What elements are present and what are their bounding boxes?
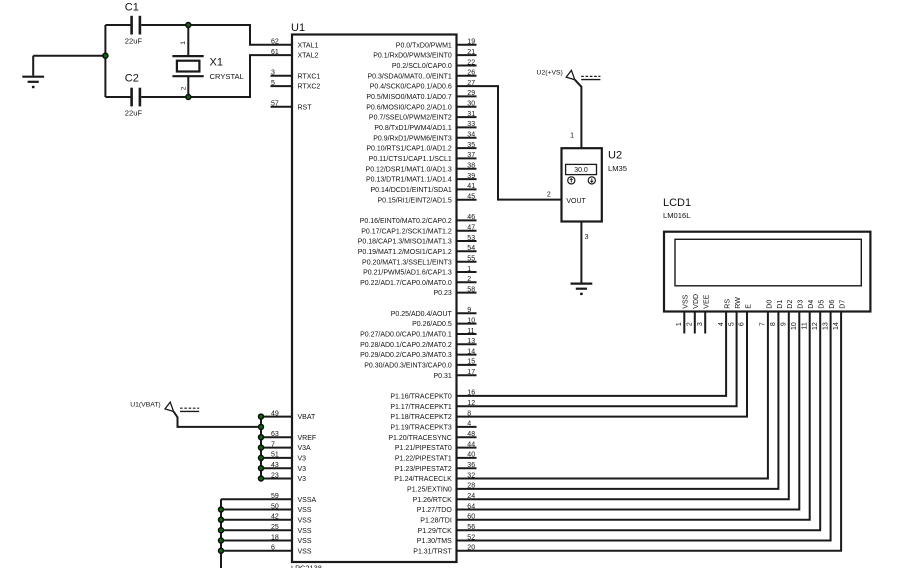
svg-text:P1.25/EXTIN0: P1.25/EXTIN0 <box>407 487 452 494</box>
U1 right pin 48 P1.20/TRACESYNC <box>457 436 477 438</box>
svg-text:44: 44 <box>467 441 475 448</box>
svg-text:VREF: VREF <box>298 435 317 442</box>
U1 left pin 50 VSS <box>221 509 292 511</box>
junction: power bus row 42 <box>259 466 264 471</box>
svg-text:RTXC2: RTXC2 <box>298 84 321 91</box>
U1 right pin 9 P0.25/AD0.4/AOUT <box>457 312 477 314</box>
U1 right pin 26 P0.3/SDA0/MAT0..0/EINT1 <box>457 75 477 77</box>
svg-text:48: 48 <box>467 431 475 438</box>
U1 right pin 22 P0.2/SCL0/CAP0.0 <box>457 65 477 67</box>
svg-text:P1.16/TRACEPKT0: P1.16/TRACEPKT0 <box>390 394 452 401</box>
svg-text:22uF: 22uF <box>125 109 143 118</box>
svg-text:P0.22/AD1.7/CAP0.0/MAT0.0: P0.22/AD1.7/CAP0.0/MAT0.0 <box>360 280 452 287</box>
svg-text:V3: V3 <box>298 456 307 463</box>
svg-text:LPC2138: LPC2138 <box>291 563 322 568</box>
svg-text:39: 39 <box>467 173 475 180</box>
svg-text:22: 22 <box>467 59 475 66</box>
svg-text:LM35: LM35 <box>608 164 627 173</box>
svg-text:P0.18/CAP1.3/MISO1/MAT1.3: P0.18/CAP1.3/MISO1/MAT1.3 <box>358 239 452 246</box>
svg-text:2: 2 <box>467 276 471 283</box>
svg-text:U1: U1 <box>291 22 305 34</box>
svg-text:P0.28/AD0.1/CAP0.2/MAT0.2: P0.28/AD0.1/CAP0.2/MAT0.2 <box>360 342 452 349</box>
U2 display 30.0 <box>566 164 597 174</box>
svg-text:P0.10/RTS1/CAP1.0/AD1.2: P0.10/RTS1/CAP1.0/AD1.2 <box>366 146 452 153</box>
svg-text:9: 9 <box>467 307 471 314</box>
svg-text:63: 63 <box>271 431 279 438</box>
svg-text:2: 2 <box>687 322 694 326</box>
svg-text:4: 4 <box>467 421 471 428</box>
U2 down button <box>588 177 595 184</box>
U1 left pin 18 VSS <box>221 540 292 542</box>
svg-text:E: E <box>745 304 752 309</box>
svg-text:13: 13 <box>822 322 829 330</box>
svg-text:P0.27/AD0.0/CAP0.1/MAT0.1: P0.27/AD0.0/CAP0.1/MAT0.1 <box>360 332 452 339</box>
U1 right pin 39 P0.13/DTR1/MAT1.1/AD1.4 <box>457 178 477 180</box>
svg-text:P1.20/TRACESYNC: P1.20/TRACESYNC <box>388 435 451 442</box>
svg-text:30: 30 <box>467 101 475 108</box>
svg-text:3: 3 <box>585 234 589 241</box>
svg-text:45: 45 <box>467 194 475 201</box>
svg-text:P0.5/MISO0/MAT0.1/AD0.7: P0.5/MISO0/MAT0.1/AD0.7 <box>366 94 452 101</box>
svg-text:25: 25 <box>271 524 279 531</box>
wire: D6 net - U1 row 49 to LCD1 <box>457 312 831 541</box>
svg-text:23: 23 <box>271 472 279 479</box>
LCD1 pin 3 VEE stub <box>704 312 706 334</box>
U1 left pin 43 V3 <box>261 467 292 469</box>
U1 left pin 49 VBAT <box>261 416 292 418</box>
U1 right pin 4 P1.19/TRACEPKT3 <box>457 426 477 428</box>
svg-text:35: 35 <box>467 142 475 149</box>
ground (U2) <box>571 283 593 285</box>
svg-text:LM016L: LM016L <box>663 211 690 220</box>
wire: C1 left plate to left rail <box>105 24 131 26</box>
svg-text:P0.17/CAP1.2/SCK1/MAT1.2: P0.17/CAP1.2/SCK1/MAT1.2 <box>361 228 452 235</box>
svg-text:40: 40 <box>467 452 475 459</box>
svg-text:D6: D6 <box>829 300 836 309</box>
svg-text:P0.9/RxD1/PWM6/EINT3: P0.9/RxD1/PWM6/EINT3 <box>373 135 452 142</box>
display LCD1 LM016L body <box>664 232 870 312</box>
wire: VBAT/VREF/V3 power bus <box>260 417 262 479</box>
U1 right pin 13 P0.28/AD0.1/CAP0.2/MAT0.2 <box>457 343 477 345</box>
U1 right pin 34 P0.9/RxD1/PWM6/EINT3 <box>457 137 477 139</box>
junction: power bus row 41 <box>259 455 264 460</box>
svg-text:P0.19/MAT1.2/MOSI1/CAP1.2: P0.19/MAT1.2/MOSI1/CAP1.2 <box>358 249 452 256</box>
svg-text:57: 57 <box>271 101 279 108</box>
svg-text:59: 59 <box>271 493 279 500</box>
svg-text:V3: V3 <box>298 476 307 483</box>
svg-text:P0.7/SSEL0/PWM2/EINT2: P0.7/SSEL0/PWM2/EINT2 <box>369 115 452 122</box>
svg-text:P0.6/MOSI0/CAP0.2/AD1.0: P0.6/MOSI0/CAP0.2/AD1.0 <box>366 104 452 111</box>
svg-text:9: 9 <box>781 322 788 326</box>
svg-text:P0.8/TxD1/PWM4/AD1.1: P0.8/TxD1/PWM4/AD1.1 <box>374 125 452 132</box>
svg-text:P1.22/PIPESTAT1: P1.22/PIPESTAT1 <box>395 456 452 463</box>
ground (left) <box>22 76 44 78</box>
svg-text:RTXC1: RTXC1 <box>298 73 321 80</box>
svg-text:P1.18/TRACEPKT2: P1.18/TRACEPKT2 <box>390 414 452 421</box>
U1 left pin 51 V3 <box>261 457 292 459</box>
svg-text:14: 14 <box>833 322 840 330</box>
svg-text:51: 51 <box>271 452 279 459</box>
junction: XTAL1 / crystal <box>186 23 191 28</box>
svg-text:VSS: VSS <box>298 517 312 524</box>
svg-text:P0.29/AD0.2/CAP0.3/MAT0.3: P0.29/AD0.2/CAP0.3/MAT0.3 <box>360 352 452 359</box>
U1 right pin 45 P0.15/RI1/EINT2/AD1.5 <box>457 199 477 201</box>
svg-text:31: 31 <box>467 111 475 118</box>
junction: VSS bus row 50 <box>219 548 224 553</box>
crystal X1 bottom lead <box>187 76 189 97</box>
svg-text:42: 42 <box>271 514 279 521</box>
junction: VSS bus row 48 <box>219 528 224 533</box>
svg-text:21: 21 <box>467 49 475 56</box>
svg-text:8: 8 <box>770 322 777 326</box>
LCD1 pin 2 VDD stub <box>694 312 696 334</box>
svg-text:C1: C1 <box>125 2 139 14</box>
svg-text:2: 2 <box>181 86 188 90</box>
svg-text:22uF: 22uF <box>125 37 143 46</box>
U1 right pin 29 P0.5/MISO0/MAT0.1/AD0.7 <box>457 95 477 97</box>
U1 right pin 11 P0.27/AD0.0/CAP0.1/MAT0.1 <box>457 333 477 335</box>
svg-text:VEE: VEE <box>704 294 711 308</box>
U1 left pin 63 VREF <box>261 436 292 438</box>
svg-text:V3: V3 <box>298 466 307 473</box>
svg-text:P1.31/TRST: P1.31/TRST <box>413 548 452 555</box>
U1 right pin 47 P0.17/CAP1.2/SCK1/MAT1.2 <box>457 230 477 232</box>
svg-text:1: 1 <box>570 133 574 140</box>
svg-text:61: 61 <box>271 49 279 56</box>
svg-text:54: 54 <box>467 245 475 252</box>
wire: VSS ground bus <box>220 499 222 568</box>
svg-text:34: 34 <box>467 132 475 139</box>
svg-text:U2: U2 <box>608 150 622 162</box>
junction: VSS bus row 49 <box>219 538 224 543</box>
svg-text:VSS: VSS <box>298 538 312 545</box>
svg-text:10: 10 <box>791 322 798 330</box>
svg-text:VSSA: VSSA <box>298 497 317 504</box>
U1 right pin 30 P0.6/MOSI0/CAP0.2/AD1.0 <box>457 106 477 108</box>
svg-text:17: 17 <box>467 369 475 376</box>
U1 left pin 5 RTXC2 <box>271 85 293 87</box>
svg-text:P0.4/SCK0/CAP0.1/AD0.6: P0.4/SCK0/CAP0.1/AD0.6 <box>370 84 452 91</box>
power terminal U1(VBAT) <box>165 402 174 411</box>
svg-text:55: 55 <box>467 256 475 263</box>
junction: power bus row 37 <box>259 414 264 419</box>
svg-text:11: 11 <box>801 322 808 329</box>
svg-text:P1.30/TMS: P1.30/TMS <box>417 538 452 545</box>
svg-text:33: 33 <box>467 121 475 128</box>
svg-text:38: 38 <box>467 163 475 170</box>
svg-text:D0: D0 <box>766 300 773 309</box>
svg-text:RST: RST <box>298 104 313 111</box>
svg-text:12: 12 <box>812 322 819 330</box>
svg-text:P0.2/SCL0/CAP0.0: P0.2/SCL0/CAP0.0 <box>392 63 452 70</box>
U1 right pin 36 P1.23/PIPESTAT2 <box>457 467 477 469</box>
junction: power bus row 40 <box>259 445 264 450</box>
wire: D0 net - U1 row 43 to LCD1 <box>457 312 768 479</box>
LCD1 pin 1 VSS stub <box>683 312 685 334</box>
wire: +VS to U2 pin 1 <box>575 80 582 149</box>
wire: E net - U1 row 37 to LCD1 <box>457 312 748 417</box>
svg-text:VOUT: VOUT <box>566 198 586 205</box>
U1 right pin 1 P0.21/PWM5/AD1.6/CAP1.3 <box>457 271 477 273</box>
svg-text:10: 10 <box>467 317 475 324</box>
svg-text:6: 6 <box>739 322 746 326</box>
svg-text:LCD1: LCD1 <box>663 197 691 209</box>
svg-text:P0.15/RI1/EINT2/AD1.5: P0.15/RI1/EINT2/AD1.5 <box>377 197 451 204</box>
wire: D4 net - U1 row 47 to LCD1 <box>457 312 810 520</box>
U1 right pin 41 P0.14/DCD1/EINT1/SDA1 <box>457 188 477 190</box>
U1 left pin 25 VSS <box>221 529 292 531</box>
svg-text:11: 11 <box>467 328 474 335</box>
svg-text:49: 49 <box>271 410 279 417</box>
U1 right pin 15 P0.30/AD0.3/EINT3/CAP0.0 <box>457 364 477 366</box>
wire: RS net - U1 row 35 to LCD1 <box>457 312 727 396</box>
svg-text:P0.23: P0.23 <box>434 290 452 297</box>
wire: ground branch <box>33 55 105 57</box>
U1 left pin 6 VSS <box>221 550 292 552</box>
svg-text:P0.0/TxD0/PWM1: P0.0/TxD0/PWM1 <box>396 42 452 49</box>
svg-text:41: 41 <box>467 183 475 190</box>
svg-text:P0.16/EINT0/MAT0.2/CAP0.2: P0.16/EINT0/MAT0.2/CAP0.2 <box>360 218 452 225</box>
svg-text:P0.3/SDA0/MAT0..0/EINT1: P0.3/SDA0/MAT0..0/EINT1 <box>368 73 452 80</box>
svg-text:14: 14 <box>467 348 475 355</box>
U1 left pin 59 VSSA <box>221 498 292 500</box>
svg-text:D2: D2 <box>787 300 794 309</box>
svg-text:19: 19 <box>467 39 475 46</box>
U1 right pin 17 P0.31 <box>457 374 477 376</box>
U1 left pin 3 RTXC1 <box>271 75 293 77</box>
svg-text:VSS: VSS <box>298 528 312 535</box>
U1 right pin 55 P0.20/MAT1.3/SSEL1/EINT3 <box>457 261 477 263</box>
U1 right pin 58 P0.23 <box>457 292 477 294</box>
svg-text:D5: D5 <box>819 300 826 309</box>
svg-text:37: 37 <box>467 152 475 159</box>
svg-text:XTAL1: XTAL1 <box>298 42 319 49</box>
wire: D2 net - U1 row 45 to LCD1 <box>457 312 789 500</box>
svg-text:X1: X1 <box>210 57 223 69</box>
svg-text:P0.11/CTS1/CAP1.1/SCL1: P0.11/CTS1/CAP1.1/SCL1 <box>369 156 452 163</box>
svg-text:36: 36 <box>467 462 475 469</box>
U1 right pin 21 P0.1/RxD0/PWM3/EINT0 <box>457 54 477 56</box>
U1 right pin 40 P1.22/PIPESTAT1 <box>457 457 477 459</box>
U1 left pin 23 V3 <box>261 478 292 480</box>
svg-text:58: 58 <box>467 286 475 293</box>
U1 right pin 10 P0.26/AD0.5 <box>457 323 477 325</box>
svg-text:7: 7 <box>760 322 767 326</box>
svg-text:P1.27/TDO: P1.27/TDO <box>417 507 453 514</box>
svg-text:4: 4 <box>718 322 725 326</box>
svg-text:P1.21/PIPESTAT0: P1.21/PIPESTAT0 <box>395 445 452 452</box>
wire: P0.4 AD0.6 to U2 VOUT <box>457 86 562 200</box>
junction: left rail / ground <box>103 53 108 58</box>
wire: D1 net - U1 row 44 to LCD1 <box>457 312 779 489</box>
svg-text:P0.31: P0.31 <box>434 373 452 380</box>
svg-text:RW: RW <box>735 297 742 309</box>
svg-text:P0.12/DSR1/MAT1.0/AD1.3: P0.12/DSR1/MAT1.0/AD1.3 <box>366 166 452 173</box>
junction: power bus row 43 <box>259 476 264 481</box>
svg-text:62: 62 <box>271 39 279 46</box>
U1 right pin 44 P1.21/PIPESTAT0 <box>457 447 477 449</box>
svg-text:RS: RS <box>725 299 732 309</box>
svg-text:U2(+VS): U2(+VS) <box>537 70 563 77</box>
wire: D7 net - U1 row 50 to LCD1 <box>457 312 842 551</box>
svg-text:3: 3 <box>271 70 275 77</box>
U1 left pin 57 RST <box>271 106 293 108</box>
wire: ground stub <box>32 56 34 76</box>
U1 right pin 37 P0.11/CTS1/CAP1.1/SCL1 <box>457 157 477 159</box>
svg-text:P0.25/AD0.4/AOUT: P0.25/AD0.4/AOUT <box>391 311 453 318</box>
svg-text:18: 18 <box>271 534 279 541</box>
svg-text:U1(VBAT): U1(VBAT) <box>130 401 160 408</box>
svg-text:5: 5 <box>271 80 275 87</box>
power terminal U2(+VS) <box>566 70 575 79</box>
svg-text:P1.29/TCK: P1.29/TCK <box>418 528 453 535</box>
crystal X1 <box>172 55 203 57</box>
svg-text:P1.28/TDI: P1.28/TDI <box>420 517 452 524</box>
junction: VSS bus row 46 <box>219 507 224 512</box>
U1 right pin 2 P0.22/AD1.7/CAP0.0/MAT0.0 <box>457 281 477 283</box>
U1 right pin 14 P0.29/AD0.2/CAP0.3/MAT0.3 <box>457 354 477 356</box>
U1 right pin 46 P0.16/EINT0/MAT0.2/CAP0.2 <box>457 219 477 221</box>
svg-text:15: 15 <box>467 359 475 366</box>
svg-text:26: 26 <box>467 70 475 77</box>
svg-text:P1.19/TRACEPKT3: P1.19/TRACEPKT3 <box>390 425 452 432</box>
svg-text:P0.20/MAT1.3/SSEL1/EINT3: P0.20/MAT1.3/SSEL1/EINT3 <box>362 259 452 266</box>
svg-text:P0.13/DTR1/MAT1.1/AD1.4: P0.13/DTR1/MAT1.1/AD1.4 <box>366 177 452 184</box>
svg-text:D4: D4 <box>808 300 815 309</box>
svg-text:6: 6 <box>271 545 275 552</box>
svg-text:30.0: 30.0 <box>574 167 588 174</box>
svg-text:P1.17/TRACEPKT1: P1.17/TRACEPKT1 <box>390 404 452 411</box>
wire: XTAL2 net - C2 to U1 pin 61 <box>141 55 292 97</box>
svg-text:29: 29 <box>467 90 475 97</box>
wire: left rail C1-C2 <box>104 25 106 97</box>
junction: XTAL2 / crystal <box>186 95 191 100</box>
svg-text:P0.1/RxD0/PWM3/EINT0: P0.1/RxD0/PWM3/EINT0 <box>373 53 452 60</box>
svg-text:VBAT: VBAT <box>298 414 316 421</box>
svg-text:1: 1 <box>676 322 683 326</box>
wire: D3 net - U1 row 46 to LCD1 <box>457 312 800 510</box>
U1 right pin 53 P0.18/CAP1.3/MISO1/MAT1.3 <box>457 240 477 242</box>
svg-text:1: 1 <box>467 266 471 273</box>
svg-text:P0.14/DCD1/EINT1/SDA1: P0.14/DCD1/EINT1/SDA1 <box>370 187 451 194</box>
junction: power bus row 39 <box>259 435 264 440</box>
svg-text:CRYSTAL: CRYSTAL <box>210 72 244 81</box>
svg-text:7: 7 <box>271 441 275 448</box>
svg-text:P1.26/RTCK: P1.26/RTCK <box>413 497 452 504</box>
svg-text:D7: D7 <box>840 300 847 309</box>
svg-text:D1: D1 <box>777 300 784 309</box>
svg-text:13: 13 <box>467 338 475 345</box>
svg-text:VDD: VDD <box>693 294 700 309</box>
U1 right pin 35 P0.10/RTS1/CAP1.0/AD1.2 <box>457 147 477 149</box>
U1 left pin 7 V3A <box>261 447 292 449</box>
svg-text:VSS: VSS <box>683 294 690 308</box>
svg-text:V3A: V3A <box>298 445 312 452</box>
svg-text:P1.23/PIPESTAT2: P1.23/PIPESTAT2 <box>395 466 452 473</box>
crystal X1 top lead <box>187 25 189 56</box>
svg-text:53: 53 <box>467 235 475 242</box>
svg-text:VSS: VSS <box>298 507 312 514</box>
svg-text:XTAL2: XTAL2 <box>298 53 319 60</box>
svg-text:5: 5 <box>728 322 735 326</box>
IC U1 body (LPC2138) <box>292 35 457 563</box>
svg-text:2: 2 <box>547 192 551 199</box>
svg-text:C2: C2 <box>125 73 139 85</box>
wire: C2 left plate to left rail <box>105 96 131 98</box>
svg-text:47: 47 <box>467 225 475 232</box>
capacitor C1 <box>130 16 133 35</box>
svg-text:50: 50 <box>271 503 279 510</box>
svg-text:D3: D3 <box>798 300 805 309</box>
wire: U2 pin 3 to ground <box>580 222 582 284</box>
sensor U2 LM35 body <box>562 148 602 221</box>
wire: RW net - U1 row 36 to LCD1 <box>457 312 737 407</box>
U1 right pin 33 P0.8/TxD1/PWM4/AD1.1 <box>457 126 477 128</box>
svg-text:P1.24/TRACECLK: P1.24/TRACECLK <box>394 476 452 483</box>
svg-text:P0.26/AD0.5: P0.26/AD0.5 <box>412 321 452 328</box>
LCD1 screen <box>675 239 861 285</box>
svg-text:P0.30/AD0.3/EINT3/CAP0.0: P0.30/AD0.3/EINT3/CAP0.0 <box>364 363 452 370</box>
U1 right pin 54 P0.19/MAT1.2/MOSI1/CAP1.2 <box>457 250 477 252</box>
wire: D5 net - U1 row 48 to LCD1 <box>457 312 821 531</box>
capacitor C2 <box>130 88 133 107</box>
U1 right pin 38 P0.12/DSR1/MAT1.0/AD1.3 <box>457 168 477 170</box>
svg-text:VSS: VSS <box>298 548 312 555</box>
U1 right pin 31 P0.7/SSEL0/PWM2/EINT2 <box>457 116 477 118</box>
U1 left pin 42 VSS <box>221 519 292 521</box>
svg-text:P0.21/PWM5/AD1.6/CAP1.3: P0.21/PWM5/AD1.6/CAP1.3 <box>363 270 452 277</box>
wire: VBAT terminal to power bus <box>174 412 261 427</box>
wire: XTAL1 net - C1 to U1 pin 62 <box>141 25 292 45</box>
junction: power bus row 38 <box>259 424 264 429</box>
junction: VSS bus row 47 <box>219 517 224 522</box>
U2 up button <box>568 177 575 184</box>
svg-text:43: 43 <box>271 462 279 469</box>
U1 right pin 19 P0.0/TxD0/PWM1 <box>457 44 477 46</box>
svg-text:1: 1 <box>180 41 187 45</box>
svg-text:46: 46 <box>467 214 475 221</box>
svg-text:3: 3 <box>697 322 704 326</box>
